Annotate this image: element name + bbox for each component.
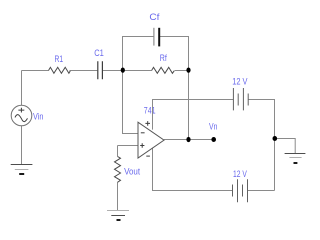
wire: R1 to C1 [70,70,98,72]
wire: non-inverting input horizontal [118,145,139,147]
wire: inverting input from node A [123,71,139,134]
capacitor C1 [98,61,103,79]
wire: stub to right ground [275,139,296,154]
svg-text:R1: R1 [55,54,64,64]
ground (middle, under Vout resistor) [107,210,129,212]
resistor R1 [49,67,71,73]
op-amp U1 741 [138,122,164,158]
svg-text:Vn: Vn [209,121,217,131]
wire: top battery to right rail [248,100,274,139]
wire: non-inverting input down to Vout resistor [117,146,119,157]
wire: op-amp output to Vn [164,139,214,141]
svg-text:12 V: 12 V [232,77,247,87]
svg-text:Rf: Rf [160,53,167,63]
node Vn dot [211,137,216,142]
capacitor Cf [153,28,155,46]
wire: Vin bottom lead to ground [21,126,23,165]
resistor Rf [152,67,175,73]
svg-text:C1: C1 [94,48,104,58]
svg-text:12 V: 12 V [233,169,247,179]
wire: Rf right lead to node B [175,70,189,72]
resistor Vout (vertical) [115,156,121,182]
svg-text:Vin: Vin [33,111,43,121]
wire: V- supply from op-amp bottom to bottom battery [153,148,233,191]
svg-text:741: 741 [144,105,156,115]
node B junction dot (Rf right) [186,68,190,73]
svg-text:Cf: Cf [149,12,160,22]
wire: Cf feedback loop [123,37,189,71]
wire: right rail lower half [274,139,276,191]
wire: input rail left, y=70 [22,70,49,72]
output node junction dot [186,137,190,142]
right rail junction dot [273,136,278,141]
wire: Vout resistor bottom to ground [117,182,119,210]
node A junction dot [121,68,125,73]
svg-text:Vout: Vout [124,167,140,177]
wire: Vin top lead [21,71,23,106]
ground (left, under Vin) [11,164,33,166]
ground (right) [285,153,306,155]
source Vin [11,105,32,126]
wire: C1 to node A and on to Rf [103,70,152,72]
wire: bottom battery to right rail [248,190,275,192]
wire: V+ supply from op-amp top to top battery [153,100,234,130]
battery V1 12V (top) [233,88,243,110]
wire: feedback vertical node B to output node [188,71,190,140]
battery V2 12V (bottom) [238,179,248,202]
